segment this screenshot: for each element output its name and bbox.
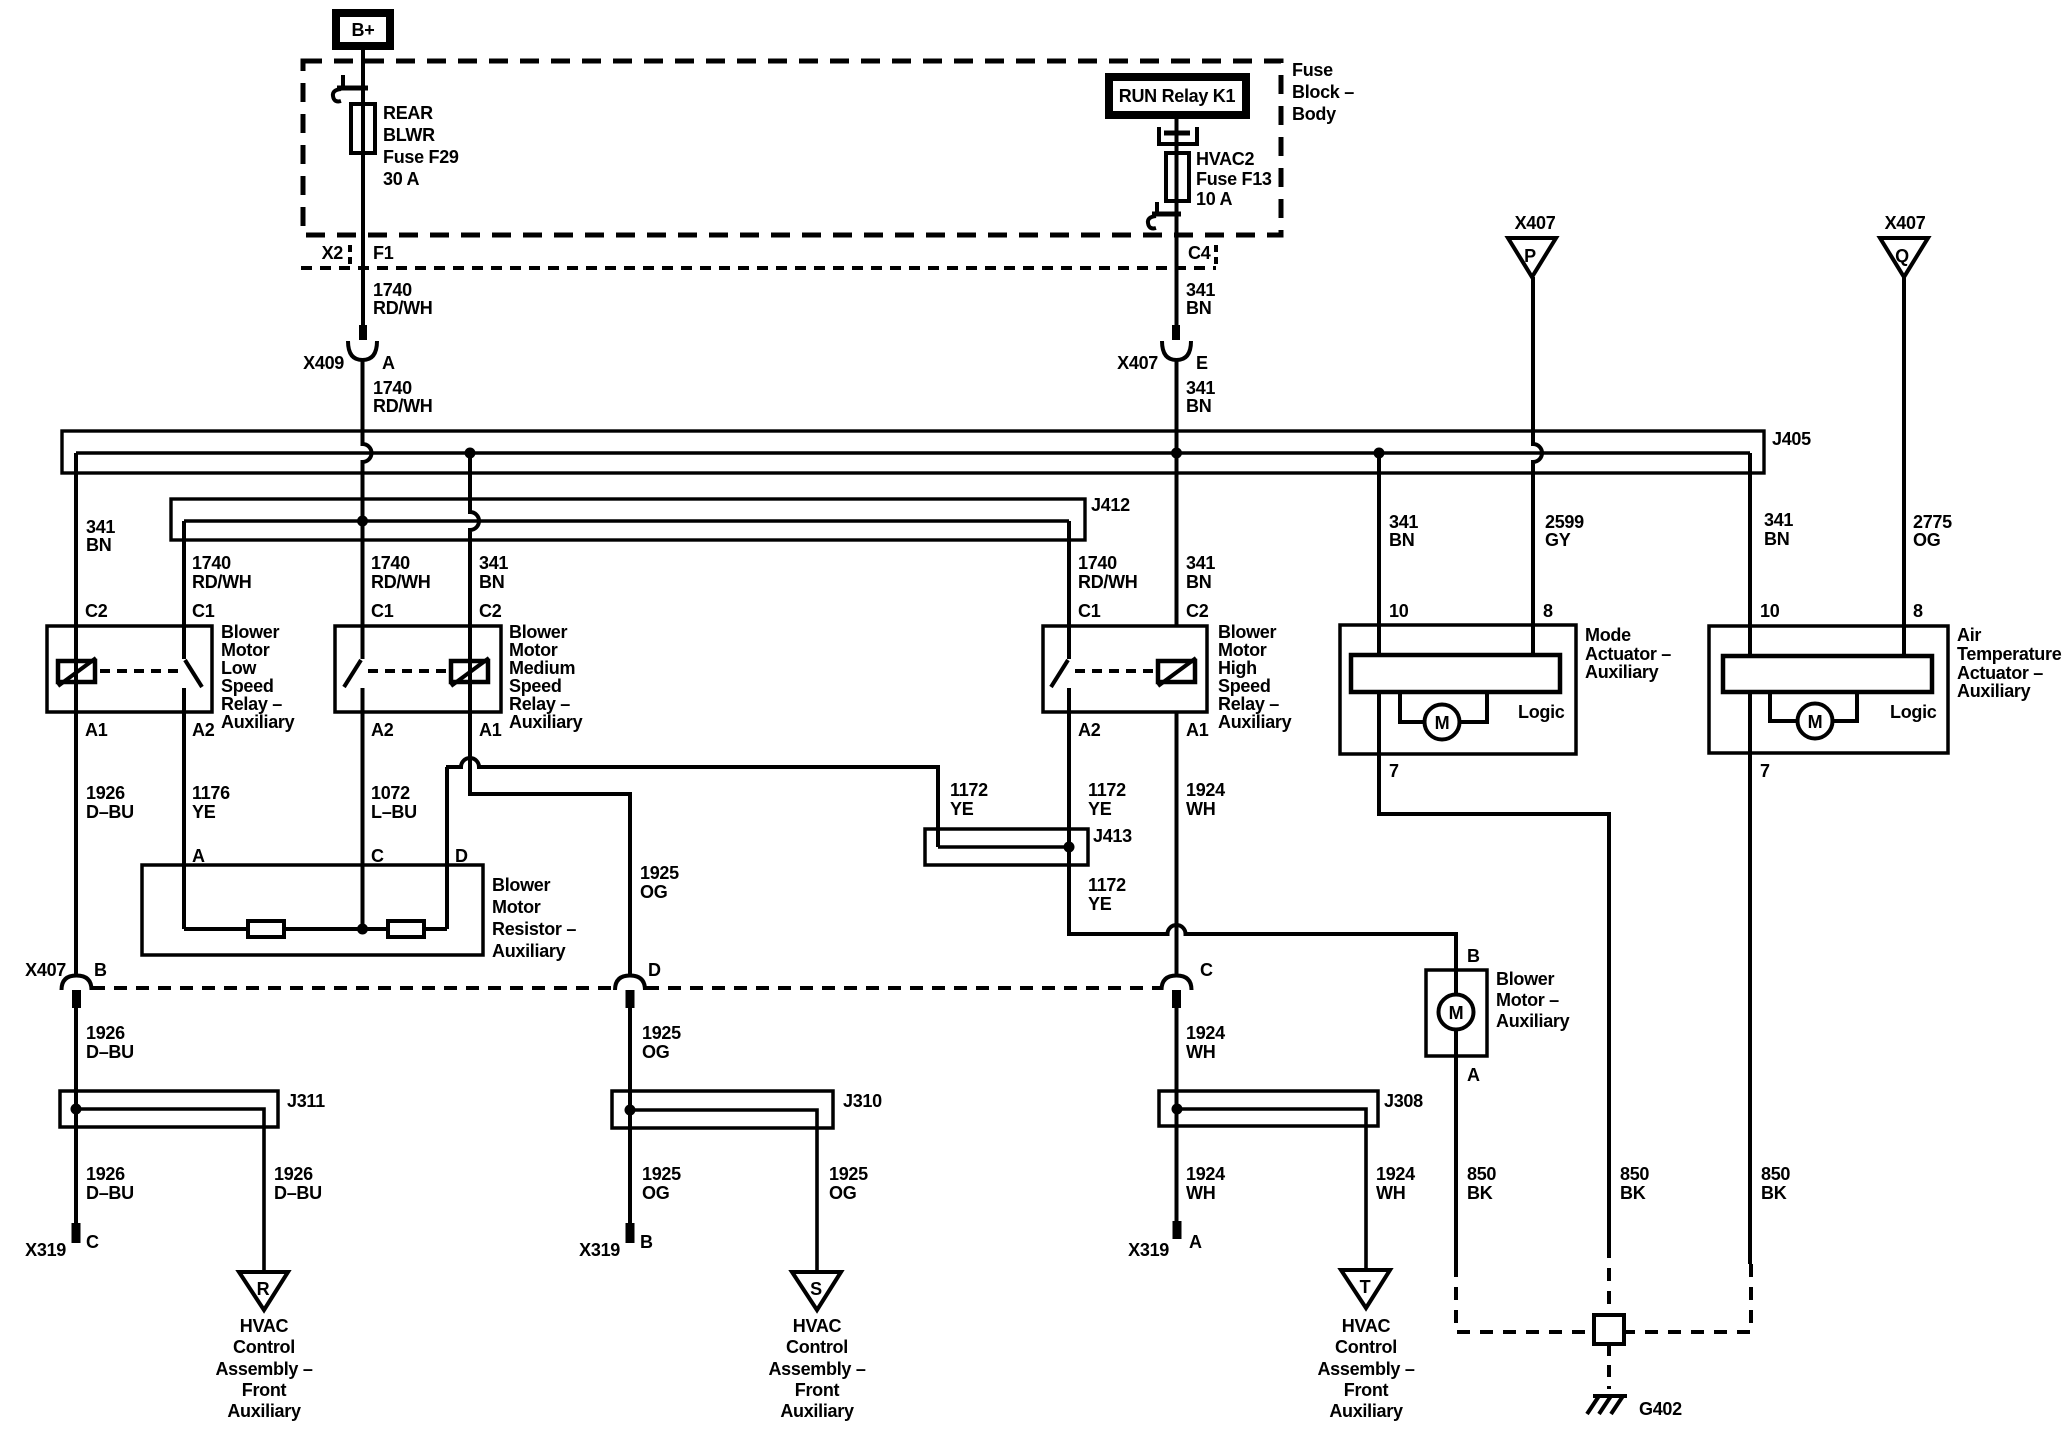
switch lower stub (361, 688, 365, 712)
svg-text:C: C (1200, 960, 1213, 980)
wire RUN relay to C4 (1175, 119, 1179, 325)
svg-text:1925: 1925 (829, 1164, 868, 1184)
svg-text:X407: X407 (1117, 353, 1158, 373)
connector row X407 dashed line (92, 986, 614, 990)
wire 1172 YE (medium relay A1 down, corner to 1925 OG drop) (470, 712, 630, 977)
svg-text:1926: 1926 (86, 783, 125, 803)
svg-text:M: M (1449, 1003, 1464, 1023)
svg-text:X319: X319 (579, 1240, 620, 1260)
svg-text:10 A: 10 A (1196, 189, 1232, 209)
svg-text:D: D (648, 960, 661, 980)
wire 1924 WH (high relay A1 to X407 C) (1175, 712, 1179, 977)
svg-text:1925: 1925 (642, 1164, 681, 1184)
wire 341 BN left drop (J405 to low relay C2/A1 and X407 B) (74, 453, 78, 977)
wire label 1924 WH below X407 C (1186, 1023, 1225, 1062)
bus J405 inner wire 341 BN (76, 451, 1750, 454)
svg-text:1740: 1740 (373, 280, 412, 300)
svg-text:D–BU: D–BU (274, 1183, 322, 1203)
svg-text:X2: X2 (322, 243, 344, 263)
wire label 1926 D-BU x76 low (86, 1164, 134, 1203)
wire 2599 GY (P triangle to mode actuator pin 8, hop over J405) (1533, 277, 1542, 655)
wire label 1172 YE (below J413) (1088, 875, 1126, 914)
wire label 1925 OG (640, 863, 679, 902)
label HVAC Control Assembly - Front Auxiliary (T) (1317, 1316, 1414, 1421)
power symbol B+ (336, 13, 390, 46)
pin 7 wire inside (1377, 692, 1381, 754)
junction J308 (1159, 1091, 1378, 1126)
svg-text:GY: GY (1545, 530, 1571, 550)
svg-text:Front: Front (242, 1380, 287, 1400)
svg-text:C1: C1 (1078, 601, 1101, 621)
svg-text:B: B (94, 960, 107, 980)
svg-text:1740: 1740 (373, 378, 412, 398)
connector line X2 / F1 / C4 (301, 266, 1216, 270)
svg-text:Front: Front (795, 1380, 840, 1400)
svg-text:Auxiliary: Auxiliary (1957, 681, 2031, 701)
off-page triangle X407 Q (1880, 213, 1928, 277)
wire 1926 D-BU (X407 B to X319 C) (74, 1006, 78, 1223)
wire label 1926 D-BU below X407 B (86, 1023, 134, 1062)
wire label 2775 OG (1913, 512, 1952, 550)
svg-text:1740: 1740 (192, 553, 231, 573)
svg-text:10: 10 (1760, 601, 1780, 621)
wire label 1176 YE (192, 783, 230, 822)
resistor Blower Motor Resistor - Auxiliary (142, 846, 576, 961)
svg-text:BLWR: BLWR (383, 125, 435, 145)
wire 341 BN (J405 right end to air temp actuator pin 10) (1748, 453, 1752, 656)
svg-text:Actuator –: Actuator – (1957, 663, 2043, 683)
dashed ground wire from blower motor to G402 (1456, 1264, 1594, 1332)
svg-text:YE: YE (1088, 799, 1112, 819)
relay Blower Motor High Speed Relay - Auxiliary (1043, 601, 1292, 740)
svg-text:A1: A1 (85, 720, 108, 740)
svg-text:Block –: Block – (1292, 82, 1354, 102)
svg-text:1925: 1925 (640, 863, 679, 883)
wire label 341 BN above X407 E (1186, 280, 1215, 318)
svg-text:A: A (382, 353, 395, 373)
off-page triangle X407 P (1508, 213, 1556, 277)
svg-text:Auxiliary: Auxiliary (780, 1401, 854, 1421)
svg-text:YE: YE (950, 799, 974, 819)
svg-text:A2: A2 (1078, 720, 1101, 740)
svg-text:1925: 1925 (642, 1023, 681, 1043)
svg-text:Relay –: Relay – (1218, 694, 1279, 714)
coil (451, 661, 488, 682)
wire label 2599 GY (1545, 512, 1584, 550)
svg-text:Motor: Motor (1218, 640, 1267, 660)
motor M circle (1798, 704, 1833, 739)
svg-text:RD/WH: RD/WH (1078, 572, 1138, 592)
svg-text:WH: WH (1376, 1183, 1405, 1203)
wire 1740 RD/WH (J412 left drop to low relay C1) (182, 521, 186, 659)
svg-text:C1: C1 (192, 601, 215, 621)
svg-text:341: 341 (1186, 280, 1215, 300)
wire 1176 YE (low relay A2 to resistor pin A) (182, 688, 186, 929)
svg-text:Relay –: Relay – (509, 694, 570, 714)
svg-text:341: 341 (1186, 553, 1215, 573)
junction dot J405 x=1176 (1171, 448, 1182, 459)
svg-text:Motor: Motor (509, 640, 558, 660)
svg-text:Body: Body (1292, 104, 1336, 124)
svg-text:Auxiliary: Auxiliary (1329, 1401, 1403, 1421)
svg-text:Auxiliary: Auxiliary (1218, 712, 1292, 732)
svg-text:RD/WH: RD/WH (192, 572, 252, 592)
connector tick X2 (348, 245, 352, 268)
svg-text:X319: X319 (1128, 1240, 1169, 1260)
wire label 341 BN below X407 E (1186, 378, 1215, 416)
svg-text:D–BU: D–BU (86, 1183, 134, 1203)
coil-switch dashed link (100, 669, 178, 673)
svg-text:OG: OG (1913, 530, 1940, 550)
coil-switch dashed link (1075, 669, 1154, 673)
junction J413 (925, 829, 1088, 865)
svg-text:B+: B+ (352, 20, 375, 40)
svg-text:1172: 1172 (950, 780, 988, 800)
svg-text:Fuse: Fuse (1292, 60, 1333, 80)
ground symbol G402 (1587, 1396, 1682, 1419)
switch blade (344, 660, 361, 687)
svg-text:S: S (810, 1279, 822, 1299)
svg-text:Blower: Blower (1496, 969, 1555, 989)
svg-text:J412: J412 (1091, 495, 1130, 515)
svg-text:1172: 1172 (1088, 780, 1126, 800)
svg-text:Actuator –: Actuator – (1585, 644, 1671, 664)
svg-text:BK: BK (1467, 1183, 1493, 1203)
fuse clip F29 (333, 75, 368, 101)
svg-text:C4: C4 (1188, 243, 1211, 263)
svg-text:RD/WH: RD/WH (371, 572, 431, 592)
svg-text:341: 341 (86, 517, 115, 537)
svg-text:WH: WH (1186, 1183, 1215, 1203)
svg-text:HVAC: HVAC (1342, 1316, 1391, 1336)
pin 7 wire inside (1748, 692, 1752, 753)
svg-text:C: C (86, 1232, 99, 1252)
dashed ground wire from mode actuator to G402 (1607, 1245, 1611, 1315)
svg-text:7: 7 (1760, 761, 1770, 781)
svg-text:341: 341 (479, 553, 508, 573)
dashed ground wire from air temp actuator to G402 (1625, 1264, 1751, 1332)
fuse clip HVAC2 (1148, 202, 1181, 228)
switch blade (1051, 660, 1068, 687)
blower motor - auxiliary (1426, 946, 1570, 1085)
wire 1925 OG (X407 D to X319 B) (628, 1006, 632, 1223)
svg-text:1924: 1924 (1376, 1164, 1415, 1184)
svg-text:J308: J308 (1384, 1091, 1423, 1111)
svg-text:D–BU: D–BU (86, 802, 134, 822)
junction dot J405 x=1379 (1374, 448, 1385, 459)
svg-text:8: 8 (1913, 601, 1923, 621)
svg-text:BN: BN (1764, 529, 1789, 549)
svg-text:Auxiliary: Auxiliary (492, 941, 566, 961)
svg-text:BN: BN (479, 572, 504, 592)
svg-text:J311: J311 (287, 1091, 325, 1111)
wire label 1924 WH (high relay A1) (1186, 780, 1225, 819)
svg-text:Control: Control (233, 1337, 295, 1357)
svg-text:Medium: Medium (509, 658, 575, 678)
connector X407 pin C (1162, 960, 1214, 1008)
svg-text:RUN Relay K1: RUN Relay K1 (1119, 86, 1236, 106)
relay RUN Relay K1 (1109, 77, 1246, 115)
wire 341 BN (J405 dot down to medium relay C2, hop over J412) (470, 453, 479, 712)
svg-text:341: 341 (1764, 510, 1793, 530)
svg-text:A: A (1467, 1065, 1480, 1085)
svg-text:1924: 1924 (1186, 780, 1225, 800)
svg-text:Blower: Blower (492, 875, 551, 895)
fuse terminal bracket (1159, 127, 1197, 144)
svg-text:C2: C2 (85, 601, 108, 621)
svg-text:F1: F1 (373, 243, 394, 263)
svg-text:Auxiliary: Auxiliary (227, 1401, 301, 1421)
svg-text:341: 341 (1186, 378, 1215, 398)
connector X407 pin B (25, 960, 107, 1008)
svg-text:Motor –: Motor – (1496, 990, 1559, 1010)
inline connector X407 pin E (1162, 325, 1191, 360)
svg-text:Logic: Logic (1890, 702, 1937, 722)
svg-text:REAR: REAR (383, 103, 433, 123)
svg-text:Q: Q (1895, 246, 1909, 266)
off-page triangle T (1341, 1270, 1390, 1308)
svg-text:BN: BN (86, 535, 111, 555)
svg-text:Assembly –: Assembly – (1317, 1359, 1414, 1379)
wire label 1926 D-BU (low relay A1) (86, 783, 134, 822)
svg-text:J413: J413 (1093, 826, 1132, 846)
svg-text:Auxiliary: Auxiliary (1585, 662, 1659, 682)
wire label 1740 RD/WH x1069 (1078, 553, 1138, 592)
wire label 850 BK x1750 (1761, 1164, 1790, 1203)
label HVAC Control Assembly - Front Auxiliary (R) (215, 1316, 312, 1421)
fuse HVAC2 (1166, 153, 1189, 201)
wire label 1172 YE (high relay A2) (1088, 780, 1126, 819)
relay Blower Motor Medium Speed Relay - Auxiliary (335, 601, 583, 740)
relay Blower Motor Low Speed Relay - Auxiliary (47, 601, 295, 740)
svg-text:Control: Control (786, 1337, 848, 1357)
wire label 1924 WH x1366 (1376, 1164, 1415, 1203)
junction J310 (612, 1091, 833, 1128)
wire label 341 BN x1379 (1389, 512, 1418, 550)
off-page triangle R (239, 1272, 288, 1310)
wire label 850 BK x1609 (1620, 1164, 1649, 1203)
svg-text:1740: 1740 (371, 553, 410, 573)
svg-text:1924: 1924 (1186, 1023, 1225, 1043)
svg-text:1926: 1926 (86, 1164, 125, 1184)
actuator Air Temperature Actuator - Auxiliary (1709, 601, 2062, 781)
dashed stub G402 box to ground symbol (1607, 1344, 1611, 1389)
wire label 1925 OG x630 low (642, 1164, 681, 1203)
svg-text:Auxiliary: Auxiliary (509, 712, 583, 732)
wire resistor pin D up and right to J413, hop over x470 (446, 758, 938, 929)
svg-text:850: 850 (1761, 1164, 1790, 1184)
svg-text:Resistor –: Resistor – (492, 919, 576, 939)
svg-text:1740: 1740 (1078, 553, 1117, 573)
label Fuse Block - Body (1292, 60, 1354, 124)
svg-text:B: B (1467, 946, 1480, 966)
svg-text:Blower: Blower (1218, 622, 1277, 642)
svg-text:A1: A1 (1186, 720, 1209, 740)
svg-text:1926: 1926 (86, 1023, 125, 1043)
svg-text:7: 7 (1389, 761, 1399, 781)
svg-text:Assembly –: Assembly – (215, 1359, 312, 1379)
wire label 1740 RD/WH x362 (371, 553, 431, 592)
svg-text:Control: Control (1335, 1337, 1397, 1357)
svg-text:Front: Front (1344, 1380, 1389, 1400)
svg-text:1176: 1176 (192, 783, 230, 803)
svg-text:C2: C2 (479, 601, 502, 621)
svg-text:1924: 1924 (1186, 1164, 1225, 1184)
svg-text:WH: WH (1186, 799, 1215, 819)
svg-text:Blower: Blower (221, 622, 280, 642)
svg-text:Logic: Logic (1518, 702, 1565, 722)
actuator Mode Actuator - Auxiliary (1340, 601, 1671, 781)
svg-text:BN: BN (1186, 572, 1211, 592)
wire label 1740 RD/WH x184 (192, 553, 252, 592)
J308 inner wire to T (1177, 1109, 1366, 1270)
svg-text:Assembly –: Assembly – (768, 1359, 865, 1379)
svg-text:RD/WH: RD/WH (373, 396, 433, 416)
junction J311 (60, 1091, 278, 1127)
wire 850 BK mode actuator pin 7 path (1379, 754, 1609, 1245)
ground splice G402 box (1594, 1315, 1624, 1344)
svg-text:341: 341 (1389, 512, 1418, 532)
svg-text:Motor: Motor (221, 640, 270, 660)
svg-text:1072: 1072 (371, 783, 410, 803)
wire label 341 BN x1750 (1764, 510, 1793, 549)
svg-text:E: E (1196, 353, 1208, 373)
svg-text:High: High (1218, 658, 1257, 678)
label REAR BLWR Fuse F29 30 A (383, 103, 459, 189)
svg-text:RD/WH: RD/WH (373, 298, 433, 318)
wire label 1925 OG x817 (829, 1164, 868, 1203)
svg-text:8: 8 (1543, 601, 1553, 621)
wire label 1926 D-BU x264 (274, 1164, 322, 1203)
bus J412 (171, 499, 1085, 540)
wire 1740 RD/WH (X409 down to medium relay C1, hop over J405) (363, 360, 372, 659)
fuse block body dashed boundary (303, 61, 1281, 235)
fuse F29 (351, 104, 375, 153)
wire 850 BK blower motor A down (1454, 1056, 1458, 1264)
svg-text:Speed: Speed (1218, 676, 1271, 696)
switch lower stub (182, 688, 186, 712)
off-page triangle S (792, 1272, 841, 1310)
svg-text:1172: 1172 (1088, 875, 1126, 895)
wire label 1072 L-BU (371, 783, 417, 822)
bus J412 inner wire 1740 RD/WH (184, 519, 1069, 522)
J310 inner wire to S (630, 1110, 817, 1272)
wire 1072 L-BU (medium relay A2 to resistor pin C) (361, 688, 365, 929)
svg-text:X409: X409 (303, 353, 344, 373)
motor M circle (1425, 705, 1460, 740)
J413 inner wire (938, 845, 1069, 848)
label HVAC2 Fuse F13 10 A (1196, 149, 1272, 209)
svg-text:OG: OG (829, 1183, 856, 1203)
svg-text:OG: OG (640, 882, 667, 902)
svg-text:Motor: Motor (492, 897, 541, 917)
coil (1158, 661, 1195, 682)
svg-text:HVAC: HVAC (793, 1316, 842, 1336)
svg-text:X407: X407 (1885, 213, 1926, 233)
svg-text:BN: BN (1186, 298, 1211, 318)
junction dot J412 x=362 (357, 516, 368, 527)
svg-text:850: 850 (1467, 1164, 1496, 1184)
wire label 341 BN x1176 (1186, 553, 1215, 592)
svg-text:C: C (371, 846, 384, 866)
svg-text:J310: J310 (843, 1091, 882, 1111)
svg-text:A2: A2 (371, 720, 394, 740)
wire B+ down to X409 (361, 50, 365, 325)
svg-text:Air: Air (1957, 625, 1981, 645)
connector stub X319 A (1128, 1221, 1202, 1260)
svg-text:B: B (640, 1232, 653, 1252)
svg-text:X319: X319 (25, 1240, 66, 1260)
wire label 1925 OG below X407 D (642, 1023, 681, 1062)
svg-text:Speed: Speed (509, 676, 562, 696)
svg-text:YE: YE (1088, 894, 1112, 914)
wire 1740 RD/WH (J412 right drop to high relay C1) (1067, 521, 1071, 659)
svg-text:Temperature: Temperature (1957, 644, 2062, 664)
svg-text:L–BU: L–BU (371, 802, 417, 822)
J311 inner wire to R (76, 1109, 264, 1272)
label HVAC Control Assembly - Front Auxiliary (S) (768, 1316, 865, 1421)
svg-text:OG: OG (642, 1183, 669, 1203)
wire label 1740 RD/WH below X409 (373, 378, 433, 416)
wire label 850 BK x1456 (1467, 1164, 1496, 1203)
svg-text:1926: 1926 (274, 1164, 313, 1184)
svg-text:A: A (1189, 1232, 1202, 1252)
svg-text:Mode: Mode (1585, 625, 1631, 645)
svg-text:BK: BK (1620, 1183, 1646, 1203)
wire label 1924 WH x1177 low (1186, 1164, 1225, 1203)
wire 341 BN (X407 E down to high relay C2) (1175, 360, 1179, 626)
svg-text:M: M (1808, 712, 1823, 732)
svg-text:WH: WH (1186, 1042, 1215, 1062)
svg-text:BN: BN (1389, 530, 1414, 550)
wire label 341 BN x470 (479, 553, 508, 592)
svg-text:2775: 2775 (1913, 512, 1952, 532)
svg-text:HVAC: HVAC (240, 1316, 289, 1336)
connector stub X319 B (579, 1223, 653, 1260)
svg-text:X407: X407 (1515, 213, 1556, 233)
svg-text:Speed: Speed (221, 676, 274, 696)
connector X407 pin D (615, 960, 661, 1008)
svg-text:Auxiliary: Auxiliary (221, 712, 295, 732)
svg-text:A2: A2 (192, 720, 215, 740)
inline connector X409 pin A (348, 325, 377, 360)
logic block (1351, 655, 1560, 692)
connector stub X319 C (25, 1223, 99, 1260)
wire label 1740 RD/WH above X409 (373, 280, 433, 318)
motor bracket (1400, 692, 1425, 722)
svg-text:C1: C1 (371, 601, 394, 621)
svg-text:HVAC2: HVAC2 (1196, 149, 1254, 169)
svg-text:Low: Low (221, 658, 257, 678)
wire label 341 BN x76 (86, 517, 115, 555)
wire 1924 WH (X407 C to X319 A) (1175, 1006, 1179, 1221)
motor bracket (1770, 692, 1798, 721)
svg-text:850: 850 (1620, 1164, 1649, 1184)
svg-text:T: T (1360, 1277, 1371, 1297)
bus J405 (62, 431, 1764, 473)
switch blade (185, 660, 202, 687)
coil-switch dashed link (368, 669, 447, 673)
svg-text:Fuse F29: Fuse F29 (383, 147, 459, 167)
svg-text:G402: G402 (1639, 1399, 1682, 1419)
svg-text:Auxiliary: Auxiliary (1496, 1011, 1570, 1031)
wire 850 BK air temp actuator pin 7 down (1748, 753, 1752, 1264)
svg-text:C2: C2 (1186, 601, 1209, 621)
wire 2775 OG (Q triangle to air temp actuator pin 8) (1902, 277, 1906, 656)
svg-text:YE: YE (192, 802, 216, 822)
coil (58, 661, 95, 682)
svg-text:A: A (192, 846, 205, 866)
